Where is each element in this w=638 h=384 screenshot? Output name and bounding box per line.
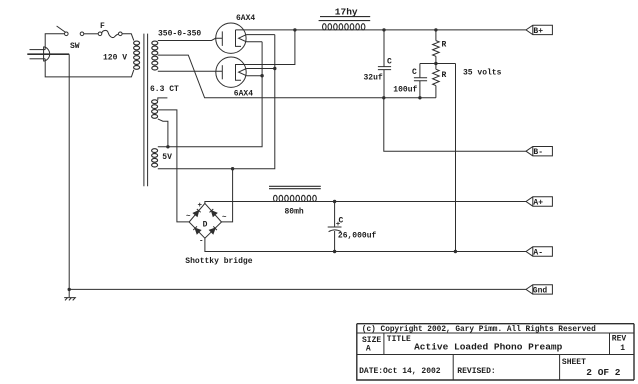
resistor R1 xyxy=(433,30,440,64)
svg-text:A-: A- xyxy=(533,249,543,258)
svg-text:17hy: 17hy xyxy=(335,7,358,18)
wire V2 heater legs xyxy=(246,69,274,76)
svg-text:Shottky bridge: Shottky bridge xyxy=(185,257,252,266)
diode bridge D Shottky xyxy=(189,203,221,238)
svg-text:(c) Copyright 2002, Gary Pimm.: (c) Copyright 2002, Gary Pimm. All Right… xyxy=(362,326,596,334)
rectifier V1 plate xyxy=(221,31,223,46)
connector tag Gnd xyxy=(526,285,552,294)
choke L1 17hy xyxy=(319,17,371,30)
svg-text:+: + xyxy=(198,202,203,210)
svg-text:120 V: 120 V xyxy=(103,54,127,63)
transformer T1 secondary 5V xyxy=(152,149,158,167)
svg-text:C: C xyxy=(387,58,392,67)
wire primary bottom to plug neutral prong xyxy=(45,59,134,77)
rectifier V2 plate xyxy=(221,65,223,79)
title block inner lines xyxy=(357,333,634,380)
svg-text:C: C xyxy=(412,68,417,77)
svg-text:Active Loaded Phono Preamp: Active Loaded Phono Preamp xyxy=(414,342,563,353)
switch SW xyxy=(57,26,84,36)
svg-text:+: + xyxy=(336,221,341,229)
svg-text:R: R xyxy=(442,71,447,80)
transformer T1 primary 120V xyxy=(134,41,140,69)
svg-text:TITLE: TITLE xyxy=(387,335,411,344)
svg-text:B+: B+ xyxy=(533,27,543,36)
wire 5V top tap heater line to tubes xyxy=(158,42,262,147)
svg-text:F: F xyxy=(100,22,105,31)
svg-text:26,000uf: 26,000uf xyxy=(338,232,377,241)
wire B+ rail xyxy=(236,29,526,31)
svg-text:6.3 CT: 6.3 CT xyxy=(150,85,179,94)
svg-text:5V: 5V xyxy=(162,153,172,162)
svg-text:-: - xyxy=(199,238,204,246)
svg-text:DATE:: DATE: xyxy=(359,367,383,376)
capacitor 32uf xyxy=(378,30,391,98)
svg-text:Oct 14, 2002: Oct 14, 2002 xyxy=(383,367,441,376)
resistor R2 xyxy=(433,64,440,98)
wire 350 bottom tap to V2 plate xyxy=(158,70,223,72)
rectifier V1 6AX4 envelope xyxy=(216,23,246,53)
svg-text:6AX4: 6AX4 xyxy=(236,14,255,23)
wire bridge plus to A+ rail xyxy=(205,202,526,204)
wire switch to fuse xyxy=(84,33,99,35)
inductor L2 80mh xyxy=(269,186,321,201)
svg-text:100uf: 100uf xyxy=(393,86,417,95)
connector tag A- xyxy=(526,247,552,256)
svg-text:SW: SW xyxy=(70,42,80,51)
AC plug P1 xyxy=(27,47,69,62)
wire 6.3 top tap stub xyxy=(158,98,168,100)
wire 5V bottom tap heater line to tubes xyxy=(158,35,275,169)
title block frame xyxy=(357,324,634,380)
svg-text:1: 1 xyxy=(620,344,625,353)
transformer T1 secondary 350-0-350 xyxy=(152,41,158,70)
svg-text:~: ~ xyxy=(186,213,191,221)
svg-text:6AX4: 6AX4 xyxy=(234,90,253,99)
rectifier V1 heater xyxy=(239,35,247,42)
svg-text:Gnd: Gnd xyxy=(533,286,548,295)
transformer T1 core xyxy=(144,34,148,187)
connector tag A+ xyxy=(526,197,552,206)
svg-text:A+: A+ xyxy=(533,199,543,208)
wire 350 top tap to V1 plate xyxy=(158,38,223,40)
wire B- branch xyxy=(384,98,526,151)
title block text xyxy=(359,326,626,378)
svg-text:SHEET: SHEET xyxy=(562,358,586,367)
wire R1 R2 junction to bias rail xyxy=(420,63,456,65)
wire 6.3 bottom tap down to heater line xyxy=(158,119,168,147)
wire neutral to ground rail xyxy=(68,54,70,289)
capacitor 26000uf xyxy=(328,202,342,252)
svg-text:B-: B- xyxy=(533,148,543,157)
rectifier V1 cathode xyxy=(236,30,242,47)
rectifier V2 heater xyxy=(239,69,247,76)
rectifier V2 cathode xyxy=(236,30,295,80)
svg-text:R: R xyxy=(442,41,447,50)
wire 350 center tap diagonal to B- node xyxy=(158,55,436,98)
wire V1 heater legs xyxy=(246,35,274,42)
svg-text:REVISED:: REVISED: xyxy=(457,367,495,376)
wire 35V bias vertical xyxy=(455,64,457,252)
connector tag B- xyxy=(526,147,552,156)
wire fuse to primary xyxy=(122,34,134,41)
transformer T1 secondary 6.3 CT xyxy=(152,100,158,119)
connector tag B+ xyxy=(526,25,552,34)
fuse F xyxy=(98,30,122,37)
svg-text:32uf: 32uf xyxy=(364,74,383,83)
capacitor 100uf xyxy=(414,64,427,98)
rectifier V2 6AX4 envelope xyxy=(216,57,246,87)
svg-text:~: ~ xyxy=(222,214,227,222)
wire plug hot up to switch rail xyxy=(45,34,64,50)
ground symbol xyxy=(64,289,75,300)
svg-text:2 OF 2: 2 OF 2 xyxy=(586,367,621,378)
svg-text:35 volts: 35 volts xyxy=(463,69,502,78)
wire bridge minus to A- rail xyxy=(205,238,526,251)
svg-text:80mh: 80mh xyxy=(285,208,304,217)
wire bridge right feed xyxy=(222,169,233,222)
svg-text:350-0-350: 350-0-350 xyxy=(158,30,201,39)
wire 6.3 center tap to bridge left xyxy=(158,110,189,222)
svg-text:A: A xyxy=(366,345,371,354)
svg-text:D: D xyxy=(203,221,208,230)
svg-text:REV: REV xyxy=(612,335,627,344)
wire ground rail xyxy=(69,288,526,290)
